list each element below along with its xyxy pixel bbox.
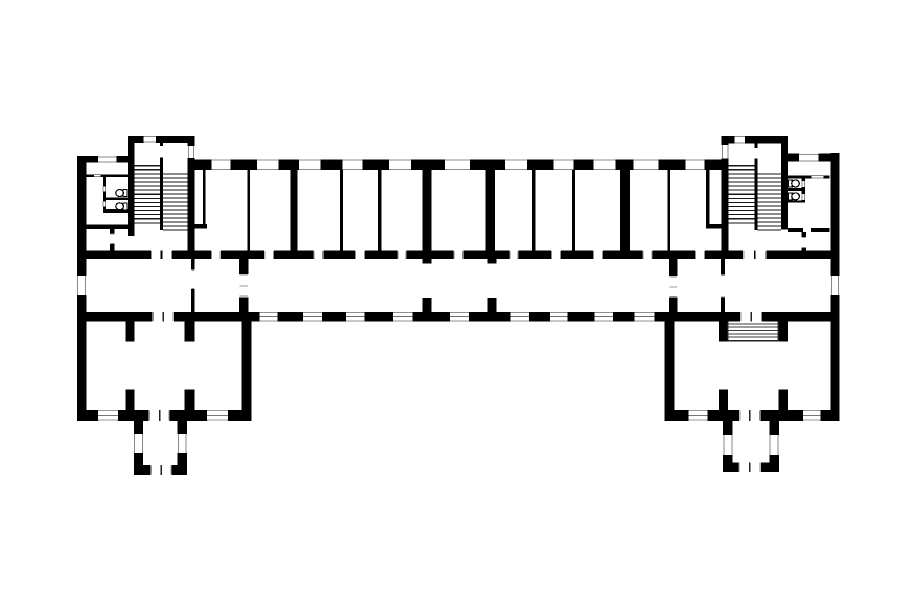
right WC stall divider — [788, 188, 805, 191]
toilet 2 right wing — [788, 193, 799, 200]
stub of wall E across corridor — [423, 298, 432, 312]
right WC lobby wall — [788, 175, 830, 178]
window N1 in main north wall — [212, 160, 231, 171]
left vestibule wall stub NW — [125, 322, 134, 342]
partition C — [340, 170, 343, 251]
window in right wing south wall (east) — [803, 410, 821, 421]
left wing separation wall (lower) — [191, 289, 194, 312]
right vestibule wall stub NW — [719, 322, 728, 342]
door right wing hall in corridor south wall — [740, 312, 762, 322]
door room1 to corridor — [211, 251, 221, 260]
left lobby door wall — [110, 229, 115, 251]
door room6 to corridor — [453, 251, 463, 260]
stub of wall E below corridor north wall — [423, 259, 432, 263]
window in left wing north wall — [98, 156, 117, 162]
door gap in right lobby south wall — [803, 228, 811, 232]
left porch east wall — [178, 421, 187, 465]
corridor cross wall right (north stub) — [669, 259, 678, 276]
shaft wall left — [203, 170, 205, 229]
left porch south wall — [134, 465, 187, 475]
door right wing to porch — [739, 410, 760, 421]
right stair treads east flight — [758, 174, 782, 230]
left vestibule wall stub NE — [185, 322, 195, 342]
corridor north wall — [77, 251, 840, 260]
door in left cross wall — [240, 275, 248, 296]
window S9 in corridor south wall — [635, 312, 655, 322]
left stair tower east wall — [188, 136, 195, 251]
left vestibule wall stub SE — [185, 389, 195, 410]
entrance door in right porch — [738, 462, 761, 472]
wall I — [620, 170, 630, 251]
door in right tower north wall — [735, 136, 746, 144]
partition G — [532, 170, 535, 251]
window in right porch east wall — [770, 435, 779, 455]
right vestibule wall stub NE — [778, 322, 788, 342]
left wing north wall — [77, 156, 129, 162]
left porch west wall — [134, 421, 143, 465]
window S6 in corridor south wall — [511, 312, 530, 322]
window N7 in main north wall — [505, 160, 527, 171]
window in left wing south wall (west) — [98, 410, 118, 421]
window in right porch west wall — [723, 435, 732, 455]
window N2 in main north wall — [257, 160, 279, 171]
right wing south wall — [665, 410, 840, 421]
main north wall of classroom band — [194, 160, 721, 171]
left wing separation wall (upper) — [191, 259, 194, 270]
door in right WC lobby wall — [811, 175, 823, 178]
left wing south wall — [77, 410, 252, 421]
window S2 in corridor south wall — [303, 312, 322, 322]
right stair mid wall — [755, 144, 758, 231]
gap in right stair mid wall — [755, 148, 758, 159]
shaft hook wall left — [194, 224, 207, 229]
double door left stairhall to corridor — [151, 251, 172, 260]
left WC stall divider — [103, 197, 129, 200]
wall F — [486, 170, 495, 251]
wall B — [290, 170, 297, 251]
left WC south wall — [103, 209, 129, 213]
toilet 1 left wing — [116, 190, 127, 197]
window S5 in corridor south wall — [450, 312, 469, 322]
right stair tower north wall — [722, 136, 788, 144]
door room11 to corridor — [695, 251, 705, 260]
wall E — [423, 170, 432, 251]
door room3 to corridor — [313, 251, 323, 260]
window in right wing south wall (west) — [688, 410, 707, 421]
door room4 to corridor — [355, 251, 365, 260]
right porch south wall — [723, 462, 779, 472]
toilet 2 left wing — [116, 203, 127, 210]
left WC lobby wall — [87, 174, 129, 177]
window in west wall — [77, 276, 87, 295]
door room2 to corridor — [264, 251, 274, 260]
door in right wing separation wall — [721, 275, 725, 296]
window in left tower east wall — [188, 146, 195, 158]
exterior wall east (right wing) — [831, 153, 840, 421]
entrance door in left porch — [151, 465, 172, 475]
left wing east wall (lower) — [241, 322, 251, 411]
right lobby door wall — [802, 232, 806, 251]
right wing west wall (lower) — [665, 322, 675, 411]
right WC east wall — [802, 178, 806, 202]
window S3 in corridor south wall — [346, 312, 365, 322]
right stair tower east wall — [781, 136, 788, 230]
right wing north wall — [788, 154, 831, 162]
left WC west wall — [103, 177, 106, 212]
window N8 in main north wall — [553, 160, 573, 171]
window N6 in main north wall — [445, 160, 470, 171]
door in right cross wall — [669, 277, 677, 296]
right wing separation wall (lower) — [721, 298, 725, 312]
door in left wing separation wall — [191, 271, 194, 289]
window N5 in main north wall — [389, 160, 411, 171]
right porch west wall — [723, 421, 732, 463]
stub of wall F below corridor north wall — [488, 259, 497, 263]
partition D — [378, 170, 381, 251]
left stair tower north wall — [128, 136, 194, 143]
partition J — [667, 170, 670, 251]
partition H — [572, 170, 575, 251]
door room7 to corridor — [509, 251, 518, 260]
window N4 in main north wall — [343, 160, 363, 171]
window in left porch east wall — [178, 434, 187, 453]
window in left wing south wall (east) — [207, 410, 228, 421]
right stair tower west wall — [722, 136, 729, 251]
left stair mid wall — [160, 143, 163, 230]
corridor cross wall left (north stub) — [239, 259, 248, 274]
door WC stall 1 right — [802, 181, 806, 187]
door left wing hall in corridor south wall — [153, 312, 174, 322]
door WC stall 1 left — [103, 186, 106, 191]
partition A — [248, 170, 251, 251]
window N11 in main north wall — [685, 160, 704, 171]
right stair treads west flight — [729, 166, 755, 223]
window N3 in main north wall — [299, 160, 321, 171]
door in left lobby door wall — [110, 234, 115, 244]
shaft wall right — [706, 170, 709, 229]
toilet 1 right wing — [788, 180, 799, 187]
stub of wall F across corridor — [488, 298, 497, 312]
double door right stairhall to corridor — [743, 251, 766, 260]
shaft hook wall right — [709, 224, 721, 229]
right wing separation wall (upper) — [721, 259, 725, 274]
window S8 in corridor south wall — [595, 312, 614, 322]
window S4 in corridor south wall — [393, 312, 413, 322]
corridor cross wall right (south stub) — [669, 298, 678, 312]
window S7 in corridor south wall — [550, 312, 568, 322]
door in left WC lobby wall — [94, 174, 101, 177]
door in left tower north wall — [144, 136, 157, 143]
door room8 to corridor — [551, 251, 561, 260]
window S1 in corridor south wall — [260, 312, 278, 322]
corridor south wall — [77, 312, 840, 322]
window N9 in main north wall — [594, 160, 616, 171]
left stair treads east flight — [163, 174, 187, 230]
door WC stall 2 left — [103, 202, 106, 207]
left stair tower west wall — [128, 136, 135, 236]
left stair treads west flight — [135, 166, 160, 223]
door room5 to corridor — [398, 251, 407, 260]
gap in left stair mid wall — [160, 146, 163, 158]
entry steps in right wing hall — [728, 322, 778, 341]
window in right tower west wall — [722, 145, 729, 158]
window in right wing north wall — [799, 154, 818, 162]
right porch east wall — [770, 421, 779, 463]
window N10 in main north wall — [634, 160, 659, 171]
left lobby south wall — [87, 225, 129, 230]
door left wing to porch — [149, 410, 170, 421]
right vestibule wall stub SE — [778, 389, 788, 410]
right lobby south wall — [788, 228, 830, 232]
door room10 to corridor — [643, 251, 653, 260]
window in east wall — [831, 276, 840, 295]
door room9 to corridor — [593, 251, 603, 260]
left vestibule wall stub SW — [125, 389, 134, 410]
corridor cross wall left (south stub) — [239, 297, 248, 311]
right WC south wall — [788, 200, 805, 202]
right vestibule wall stub SW — [719, 389, 728, 410]
window in left porch west wall — [134, 434, 143, 453]
door WC stall 2 right — [802, 194, 806, 200]
exterior wall west (left wing) — [77, 156, 87, 421]
door in right lobby door wall — [802, 237, 806, 248]
